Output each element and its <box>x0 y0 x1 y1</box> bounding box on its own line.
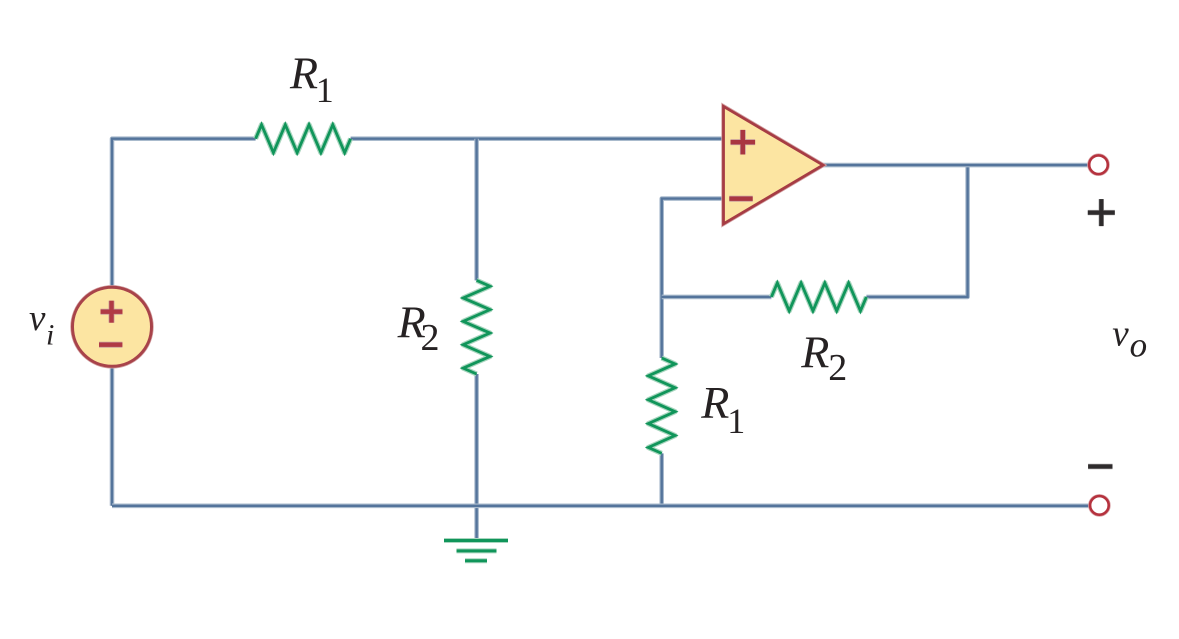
wire: feedback node to R2 feedback resistor <box>662 295 772 300</box>
label + (output polarity) <box>1088 199 1115 226</box>
label R1 (right) <box>700 377 745 441</box>
resistor R2 (feedback horizontal) <box>771 283 866 311</box>
resistor R1 (top horizontal) <box>256 125 351 153</box>
svg-text:o: o <box>1130 326 1148 365</box>
wire: left branch from source up and right to R1 <box>112 139 256 289</box>
wire: inverting input left and down to feedback node <box>662 199 724 358</box>
svg-text:2: 2 <box>421 317 440 359</box>
label R1 (top) <box>289 48 334 111</box>
voltage source vi <box>73 287 152 366</box>
wire: bottom rail <box>112 503 1090 508</box>
wire: left branch below source down to bottom rail <box>110 365 115 506</box>
resistor R1 (right vertical) <box>648 358 675 453</box>
svg-text:1: 1 <box>316 70 334 110</box>
label vi <box>29 298 54 352</box>
wire: R2 branch vertical from top rail <box>474 139 479 281</box>
label R2 (middle) <box>397 297 440 359</box>
op-amp U1 <box>724 106 824 223</box>
terminal: top output <box>1089 155 1108 174</box>
resistor R2 (middle vertical) <box>463 280 490 374</box>
svg-text:1: 1 <box>727 401 745 441</box>
ground <box>444 541 508 561</box>
label - (output polarity) <box>1088 464 1112 469</box>
svg-text:R: R <box>700 377 729 428</box>
wire: op-amp output to top terminal <box>823 163 1089 168</box>
label R2 (feedback) <box>800 327 847 389</box>
svg-text:v: v <box>1112 314 1129 355</box>
wire: below right R1 to bottom rail <box>659 453 664 505</box>
svg-text:R: R <box>289 48 318 99</box>
wire: feedback R2 right then up to output <box>866 165 967 297</box>
terminal: bottom output <box>1090 496 1109 515</box>
wire: top rail from R1 to op-amp noninverting input <box>351 136 724 141</box>
label vo <box>1112 314 1147 365</box>
svg-text:v: v <box>29 298 46 339</box>
wire: R2 branch vertical down to ground <box>474 374 479 540</box>
svg-text:R: R <box>800 327 829 378</box>
svg-text:i: i <box>46 319 54 352</box>
svg-text:2: 2 <box>828 347 847 389</box>
